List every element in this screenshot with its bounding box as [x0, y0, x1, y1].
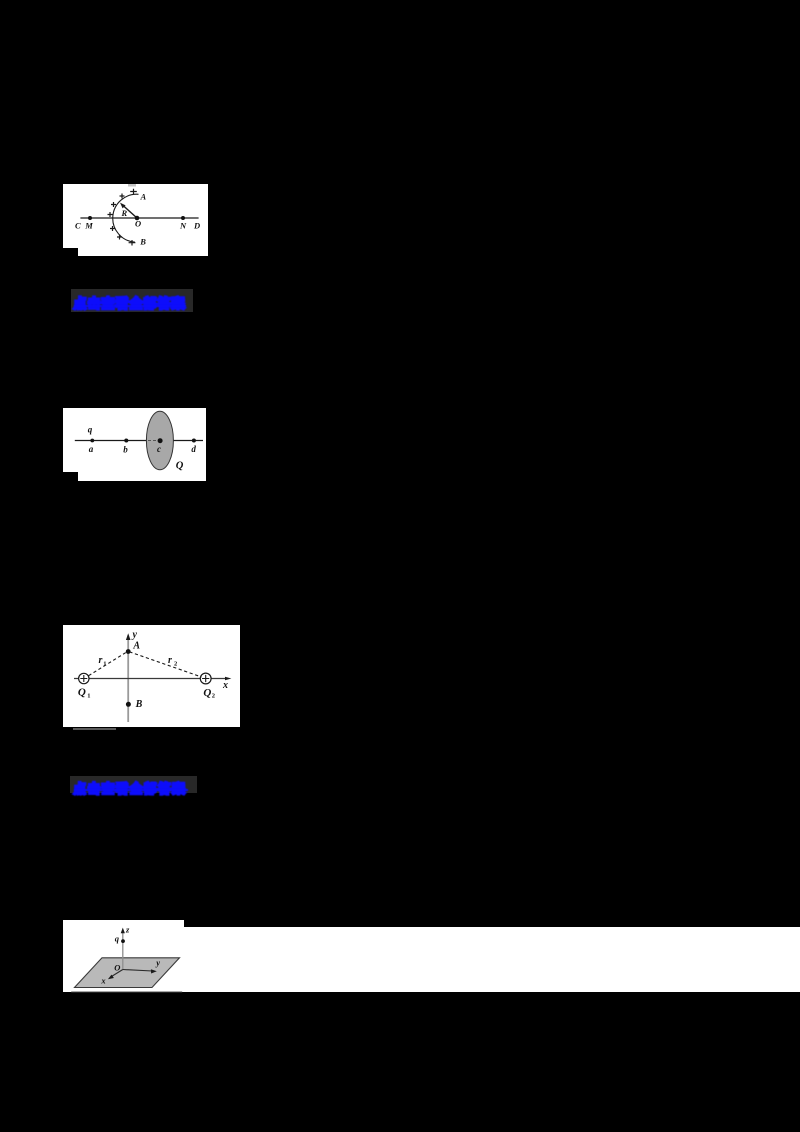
svg-text:1: 1 [103, 660, 106, 667]
svg-text:1: 1 [87, 692, 90, 699]
svg-text:2: 2 [174, 660, 177, 667]
svg-text:D: D [193, 220, 200, 230]
svg-text:d: d [191, 444, 196, 454]
svg-text:c: c [157, 444, 161, 454]
svg-text:Q: Q [203, 687, 211, 699]
svg-text:q: q [88, 424, 93, 434]
svg-text:Q: Q [78, 686, 86, 698]
svg-text:q: q [115, 933, 120, 943]
svg-text:Q: Q [176, 460, 184, 471]
svg-text:B: B [135, 699, 143, 710]
svg-text:N: N [179, 220, 187, 230]
svg-text:A: A [140, 191, 147, 201]
svg-text:B: B [139, 236, 146, 246]
svg-text:O: O [114, 962, 120, 972]
svg-text:C: C [75, 220, 81, 230]
svg-text:M: M [84, 220, 93, 230]
svg-text:a: a [89, 444, 94, 454]
svg-text:x: x [222, 680, 228, 691]
svg-text:y: y [132, 629, 138, 640]
svg-text:2: 2 [212, 692, 215, 699]
svg-text:R: R [121, 208, 128, 218]
svg-text:z: z [125, 924, 130, 934]
svg-text:r: r [99, 655, 103, 666]
svg-text:b: b [123, 444, 128, 454]
svg-text:x: x [100, 975, 106, 985]
svg-text:r: r [168, 655, 172, 666]
svg-text:A: A [132, 640, 140, 651]
svg-text:O: O [135, 218, 141, 228]
svg-text:y: y [155, 957, 160, 967]
